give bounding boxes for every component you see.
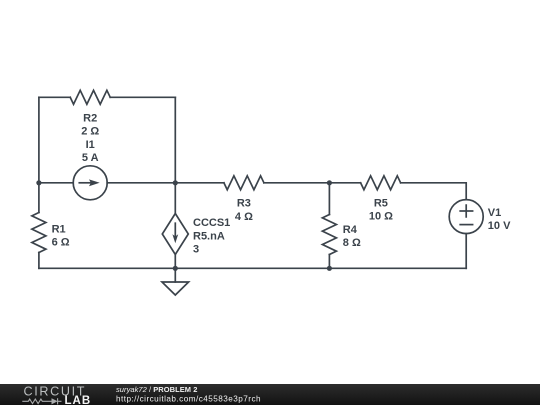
label R4 value bbox=[343, 224, 361, 249]
svg-text:suryak72 / PROBLEM 2: suryak72 / PROBLEM 2 bbox=[116, 385, 197, 394]
svg-text:5 A: 5 A bbox=[82, 152, 99, 164]
wire left rail upper bbox=[38, 97, 40, 212]
resistor R2 bbox=[70, 90, 110, 104]
svg-text:R5: R5 bbox=[374, 197, 388, 209]
resistor R3 bbox=[224, 176, 264, 190]
junction node B mid bbox=[173, 180, 178, 185]
svg-text:R5.nA: R5.nA bbox=[193, 230, 225, 242]
CircuitLab logo bbox=[22, 384, 91, 405]
svg-text:10 V: 10 V bbox=[488, 220, 511, 232]
current source I1 bbox=[73, 166, 107, 200]
junction node R4 bottom bbox=[327, 266, 332, 271]
footer title text bbox=[116, 385, 197, 394]
footer bar bbox=[0, 384, 540, 405]
svg-text:http://circuitlab.com/c45583e3: http://circuitlab.com/c45583e3p7rch bbox=[116, 395, 261, 404]
wire below R4 bbox=[328, 255, 330, 269]
junction node C mid bbox=[327, 180, 332, 185]
svg-text:LAB: LAB bbox=[65, 395, 92, 405]
resistor R5 bbox=[361, 176, 401, 190]
label R1 value bbox=[52, 223, 70, 248]
svg-text:R3: R3 bbox=[237, 198, 251, 210]
svg-text:V1: V1 bbox=[488, 207, 501, 219]
label V1 value bbox=[488, 207, 511, 232]
resistor R4 bbox=[322, 215, 336, 255]
wire top left bbox=[39, 96, 70, 98]
svg-text:3: 3 bbox=[193, 243, 199, 255]
svg-text:10 Ω: 10 Ω bbox=[369, 211, 393, 223]
wire below CCCS1 bbox=[174, 255, 176, 269]
wire below V1 bbox=[465, 234, 467, 269]
label R2 value bbox=[81, 112, 99, 137]
footer url text bbox=[116, 395, 261, 404]
wire node C down to R4 bbox=[328, 183, 330, 215]
wire mid between I1 and node B bbox=[107, 182, 175, 184]
wire mid node B to R3 bbox=[175, 182, 224, 184]
wire bottom rail bbox=[39, 267, 466, 269]
wire right loop rail bbox=[174, 97, 176, 213]
svg-text:2 Ω: 2 Ω bbox=[81, 126, 99, 138]
junction node at left mid bbox=[36, 180, 41, 185]
wire node C to R5 bbox=[329, 182, 360, 184]
label CCCS1 value bbox=[193, 217, 230, 255]
svg-text:R4: R4 bbox=[343, 224, 358, 236]
svg-text:8 Ω: 8 Ω bbox=[343, 237, 361, 249]
label R5 value bbox=[369, 197, 393, 222]
wire top right bbox=[110, 96, 175, 98]
svg-text:CCCS1: CCCS1 bbox=[193, 217, 230, 229]
svg-text:6 Ω: 6 Ω bbox=[52, 237, 70, 249]
ground bbox=[162, 268, 189, 295]
svg-text:4 Ω: 4 Ω bbox=[235, 211, 253, 223]
wire mid left bbox=[39, 182, 73, 184]
svg-text:R1: R1 bbox=[52, 223, 66, 235]
wire R5 to V1 top corner bbox=[401, 183, 467, 200]
svg-text:I1: I1 bbox=[86, 139, 95, 151]
label I1 value bbox=[82, 139, 99, 164]
wire left rail lower bbox=[38, 253, 40, 269]
svg-text:R2: R2 bbox=[83, 112, 97, 124]
cccs CCCS1 bbox=[162, 214, 188, 255]
junction node ground rail bbox=[173, 266, 178, 271]
voltage source V1 bbox=[449, 200, 483, 234]
wire R3 to node C bbox=[264, 182, 330, 184]
label R3 value bbox=[235, 198, 253, 223]
resistor R1 bbox=[32, 213, 46, 253]
